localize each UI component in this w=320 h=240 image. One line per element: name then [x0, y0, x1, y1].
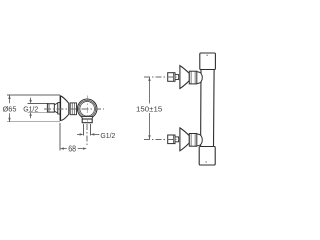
svg-text:150±15: 150±15	[136, 104, 162, 113]
hex adapter flats	[72, 103, 75, 115]
dimension 68 line + arrows	[60, 147, 87, 149]
svg-text:68: 68	[68, 145, 76, 154]
top union hex flats	[191, 71, 195, 84]
top union neck	[175, 75, 179, 80]
inlet nipple	[47, 104, 54, 112]
inlet nipple inner edge	[48, 104, 50, 112]
dimension Ø65 line + arrows	[8, 95, 10, 122]
bottom piece tick	[206, 161, 207, 163]
dimension 68 wall extension line	[59, 123, 61, 151]
svg-text:G1/2: G1/2	[100, 131, 115, 140]
top union dome	[197, 72, 203, 84]
transition cone	[54, 103, 57, 113]
washer ring	[58, 103, 61, 114]
bottom union dome	[197, 134, 203, 146]
bottom union neck	[175, 137, 179, 142]
top union centerline	[144, 76, 180, 78]
top union hex nut	[189, 71, 197, 84]
flange rim second line	[69, 104, 71, 114]
top cap tick	[207, 54, 208, 56]
dimension G1/2 (inlet) arrows	[29, 98, 31, 119]
bottom union square fitting	[168, 135, 175, 144]
centerline horizontal (valve axis)	[44, 108, 104, 110]
outlet neck	[82, 117, 93, 119]
bottom union bell escutcheon	[180, 128, 189, 151]
dimension Ø65 extension lines	[7, 95, 60, 122]
body bottom piece	[199, 147, 215, 166]
dimension G1/2 (inlet) extension lines	[28, 104, 49, 113]
body top cap	[200, 53, 216, 70]
bottom union square inner edge	[172, 135, 174, 144]
knob crosshair vertical centerline	[86, 95, 88, 123]
top union square inner edge	[172, 73, 174, 82]
outlet G1/2 extension lines	[84, 124, 91, 135]
bottom union hex nut	[189, 134, 197, 147]
svg-text:G1/2: G1/2	[23, 104, 38, 113]
svg-text:Ø65: Ø65	[3, 104, 17, 113]
valve knob outer circle	[77, 99, 97, 119]
outlet collar	[82, 119, 92, 123]
top union square fitting	[168, 73, 175, 82]
bottom union hex flats	[191, 134, 195, 147]
valve knob middle circle	[79, 100, 96, 117]
main body	[201, 70, 215, 147]
valve knob inner circle	[80, 102, 95, 117]
wall flange bell	[60, 96, 69, 121]
flange wall face emphasis	[59, 96, 61, 120]
dimension 150±15 line + arrows	[148, 77, 150, 139]
hex adapter	[70, 103, 76, 115]
outlet G1/2 arrows	[77, 133, 99, 135]
bottom union centerline	[144, 138, 180, 140]
outlet centerline vertical	[86, 124, 88, 147]
top union bell escutcheon	[180, 66, 189, 89]
